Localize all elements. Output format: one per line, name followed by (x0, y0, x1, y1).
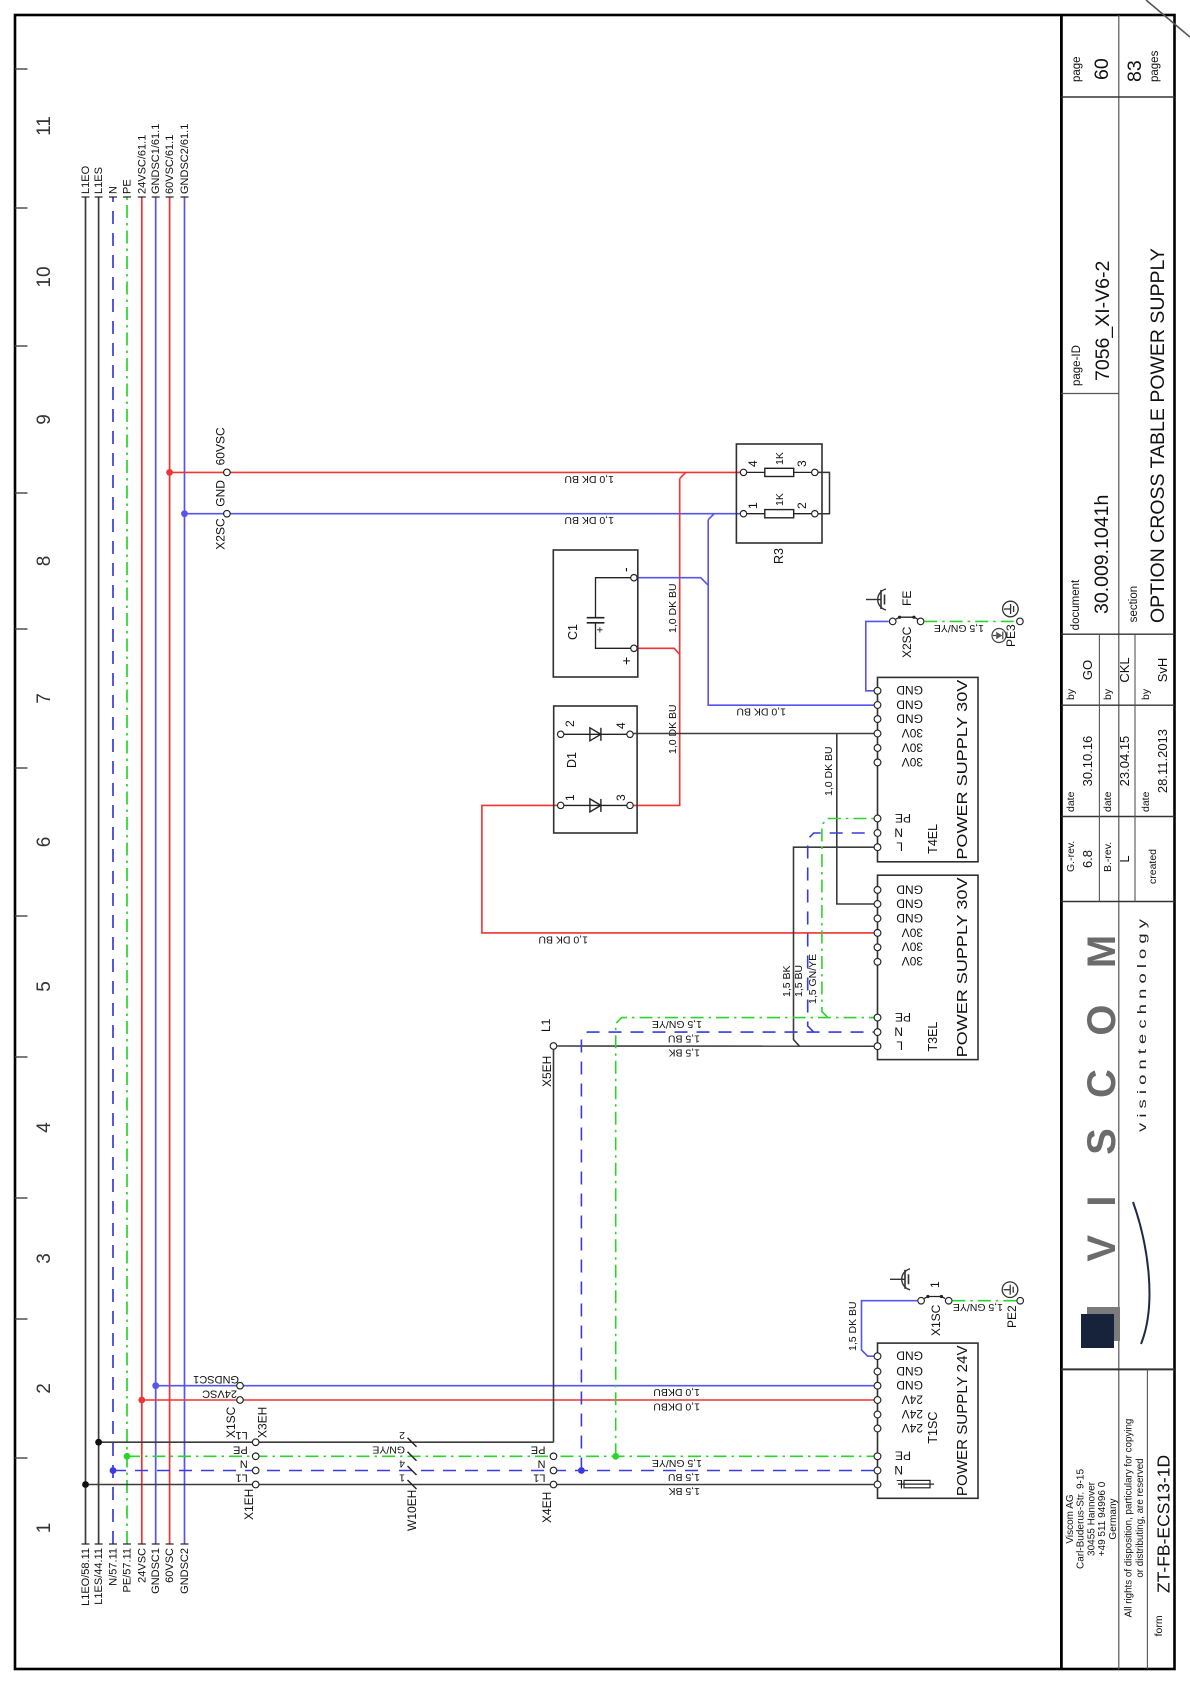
svg-text:3: 3 (614, 794, 628, 801)
svg-text:-: - (617, 567, 633, 572)
logo swoosh (1133, 1202, 1149, 1344)
wire branch to T4EL L (794, 847, 878, 1046)
pin 2 of R3 (812, 510, 818, 516)
svg-text:POWER SUPPLY 24V: POWER SUPPLY 24V (955, 1345, 971, 1496)
svg-text:6.8: 6.8 (1080, 850, 1095, 868)
terminal link X1SC (924, 1297, 945, 1299)
svg-text:PE2: PE2 (1005, 1305, 1019, 1328)
svg-text:1: 1 (563, 794, 577, 801)
svg-text:or distributing, are reserved: or distributing, are reserved (1135, 1458, 1146, 1577)
wire N drop from N bus through X1EH X4EH to T1SC N (113, 1470, 878, 1472)
terminal X2SC pin 1 circle (889, 618, 896, 625)
svg-text:GO: GO (1080, 660, 1095, 680)
wire GND net branch from C1 - (638, 578, 708, 586)
svg-text:30V: 30V (902, 726, 923, 740)
svg-text:30V: 30V (902, 940, 923, 954)
junction on L1EO bus (82, 1481, 89, 1488)
svg-text:4: 4 (614, 722, 628, 729)
terminal strip X4EH (550, 1481, 557, 1488)
svg-text:4: 4 (34, 1122, 55, 1133)
svg-text:GNDSC1/61.1: GNDSC1/61.1 (150, 124, 162, 194)
svg-text:L1ES/44.11: L1ES/44.11 (93, 1548, 105, 1605)
svg-text:date: date (1102, 791, 1114, 812)
svg-text:1,0 DK BU: 1,0 DK BU (564, 473, 614, 485)
svg-text:1: 1 (746, 502, 760, 509)
svg-text:N: N (894, 825, 903, 839)
svg-text:GND: GND (896, 712, 923, 726)
svg-text:23.04.15: 23.04.15 (1117, 736, 1132, 787)
svg-text:Viscom AG: Viscom AG (1065, 1494, 1076, 1543)
junction on GNDSC2 bus (181, 510, 188, 517)
svg-text:by: by (1140, 688, 1152, 700)
svg-text:1: 1 (399, 1472, 405, 1484)
terminal X3EH L1 (252, 1439, 259, 1446)
svg-text:PE/57.11: PE/57.11 (122, 1548, 134, 1592)
svg-text:PE: PE (895, 1449, 911, 1463)
svg-text:ZT-FB-ECS13-1D: ZT-FB-ECS13-1D (1154, 1455, 1174, 1593)
svg-text:by: by (1102, 688, 1114, 700)
svg-text:10: 10 (34, 266, 55, 287)
svg-text:v i s i o n t e c h n o l o g: v i s i o n t e c h n o l o g y (1137, 919, 1149, 1132)
svg-text:Carl-Buderus-Str. 9-15: Carl-Buderus-Str. 9-15 (1076, 1469, 1087, 1569)
wire bus rail GNDSC2 (184, 197, 186, 1544)
svg-text:7056_XI-V6-2: 7056_XI-V6-2 (1092, 261, 1114, 381)
svg-text:N/57.11: N/57.11 (108, 1548, 120, 1586)
svg-text:1,5 BK: 1,5 BK (668, 1047, 700, 1059)
svg-text:CKL: CKL (1117, 657, 1132, 682)
svg-text:83: 83 (1124, 60, 1146, 82)
svg-text:I: I (1080, 1195, 1124, 1206)
svg-text:1,5 BK: 1,5 BK (781, 965, 793, 997)
earth symbol in circle at PE3 (1003, 601, 1019, 617)
wire 60VSC drop to R3 pin 4 (170, 471, 744, 473)
svg-text:POWER SUPPLY 30V: POWER SUPPLY 30V (955, 679, 971, 859)
svg-text:PE: PE (895, 1010, 911, 1024)
wire bus rail GNDSC1 (155, 197, 157, 1544)
svg-text:pages: pages (1149, 50, 1161, 82)
svg-text:11: 11 (34, 116, 55, 136)
svg-text:X5EH: X5EH (540, 1056, 554, 1087)
svg-text:X4EH: X4EH (540, 1492, 554, 1523)
wire link T4EL 30V to T3EL GND (837, 734, 878, 905)
svg-text:8: 8 (34, 556, 55, 567)
svg-text:page-ID: page-ID (1071, 345, 1083, 386)
svg-text:1,0 DK BU: 1,0 DK BU (667, 704, 679, 754)
svg-text:1,5 GN/YE: 1,5 GN/YE (652, 1018, 702, 1030)
junction on 24VSC bus (138, 1397, 145, 1404)
svg-text:24V: 24V (902, 1421, 923, 1435)
wire 60V net horizontal run D1.3 to R3.4 (630, 472, 686, 805)
svg-text:1,0 DK BU: 1,0 DK BU (538, 933, 588, 945)
svg-text:L1EO: L1EO (80, 165, 92, 194)
power supply T4EL (878, 677, 979, 861)
svg-text:M: M (1080, 935, 1124, 968)
svg-text:X1SC: X1SC (929, 1304, 943, 1336)
wire L1 run X3EH to X5EH (553, 1050, 555, 1443)
svg-text:+: + (595, 627, 607, 633)
svg-text:L1EO/58.11: L1EO/58.11 (80, 1548, 92, 1606)
svg-text:24VSC: 24VSC (136, 1548, 148, 1583)
svg-text:GND: GND (214, 480, 228, 507)
svg-text:1,0 DK BU: 1,0 DK BU (823, 746, 835, 796)
svg-text:1,0 DKBU: 1,0 DKBU (653, 1401, 700, 1413)
svg-text:30V: 30V (902, 740, 923, 754)
svg-text:GND: GND (896, 896, 923, 910)
junction on GNDSC1 bus (152, 1382, 159, 1389)
wire bus rail 24VSC (141, 197, 143, 1544)
svg-text:L1: L1 (533, 1472, 545, 1484)
wire L1 drop from L1EO bus to X1EH to T1SC L (86, 1484, 256, 1486)
svg-text:4: 4 (746, 460, 760, 467)
terminal PE2 earth point (1017, 1297, 1024, 1304)
svg-text:PE: PE (531, 1443, 546, 1455)
svg-text:2: 2 (34, 1383, 55, 1394)
svg-text:1K: 1K (774, 452, 786, 465)
svg-text:GNDSC2/61.1: GNDSC2/61.1 (179, 124, 191, 194)
svg-text:4: 4 (399, 1458, 405, 1470)
svg-text:24VSC/61.1: 24VSC/61.1 (136, 135, 148, 194)
svg-text:+: + (618, 657, 634, 665)
svg-text:1,5 GN/YE: 1,5 GN/YE (934, 622, 984, 634)
svg-text:60VSC: 60VSC (214, 427, 228, 465)
wire X2SC to PE3 green (924, 620, 1016, 622)
svg-text:3: 3 (34, 1253, 55, 1264)
svg-text:form: form (1153, 1615, 1165, 1636)
wire bus rail N (112, 197, 114, 1544)
svg-text:L: L (896, 840, 903, 854)
svg-text:1,0 DK BU: 1,0 DK BU (564, 514, 614, 526)
pin 4 of D1 (627, 731, 633, 737)
earth symbol in circle at PE2 (1002, 1282, 1018, 1298)
terminal X2SC 60VSC (224, 469, 231, 476)
svg-text:GNDSC1: GNDSC1 (150, 1548, 162, 1594)
svg-text:1,5 BU: 1,5 BU (668, 1471, 700, 1483)
svg-text:1: 1 (34, 1523, 55, 1534)
svg-text:1,5 BU: 1,5 BU (668, 1033, 700, 1045)
svg-text:7: 7 (34, 693, 55, 704)
svg-text:GND: GND (896, 697, 923, 711)
svg-text:SvH: SvH (1155, 658, 1170, 683)
svg-text:R3: R3 (772, 548, 786, 564)
junction on 60VSC bus (166, 469, 173, 476)
functional earth symbol FE (866, 599, 881, 601)
terminal X1SC GNDSC1 circle (237, 1382, 244, 1389)
svg-text:PE: PE (233, 1443, 248, 1455)
terminal X1SC pin circle 2 (945, 1297, 952, 1304)
svg-text:N: N (894, 1463, 903, 1477)
svg-text:2: 2 (399, 1429, 405, 1441)
svg-text:30V: 30V (902, 954, 923, 968)
svg-text:+49 511 94996 0: +49 511 94996 0 (1097, 1481, 1108, 1556)
svg-text:60VSC/61.1: 60VSC/61.1 (164, 135, 176, 194)
svg-text:POWER SUPPLY 30V: POWER SUPPLY 30V (955, 877, 971, 1057)
svg-text:GND: GND (896, 882, 923, 896)
svg-text:1K: 1K (774, 493, 786, 506)
pin 2 of D1 (558, 731, 564, 737)
Viscom logo (1087, 1307, 1120, 1341)
svg-text:PE3: PE3 (1004, 624, 1018, 647)
wire PE drop from PE bus through X1EH X4EH to T1SC PE (127, 1455, 878, 1457)
svg-text:X2SC: X2SC (214, 518, 228, 550)
svg-text:X2SC: X2SC (900, 626, 914, 658)
svg-text:30455 Hannover: 30455 Hannover (1086, 1481, 1097, 1556)
svg-text:GND: GND (896, 911, 923, 925)
svg-text:T4EL: T4EL (926, 824, 940, 854)
svg-text:X1EH: X1EH (242, 1489, 256, 1520)
svg-text:L1: L1 (539, 1018, 553, 1032)
cable W10EH slash marks (408, 1480, 417, 1489)
svg-text:by: by (1065, 688, 1077, 700)
wire 24VSC drop to T1SC 24V (142, 1399, 878, 1401)
fuse symbol inside T1SC L input (904, 1480, 930, 1487)
svg-text:date: date (1140, 791, 1152, 812)
svg-text:O: O (1080, 1004, 1124, 1035)
junction on PE feeder (612, 1453, 619, 1460)
svg-text:N: N (240, 1458, 248, 1470)
terminal X2SC GND (224, 510, 231, 517)
svg-text:L1ES: L1ES (93, 167, 105, 194)
svg-text:FE: FE (900, 591, 914, 606)
pin 4 of R3 (740, 469, 746, 475)
revision cells (1098, 634, 1100, 901)
svg-text:GNDSC2: GNDSC2 (179, 1548, 191, 1594)
svg-text:L1: L1 (235, 1472, 247, 1484)
terminal link X2SC (896, 617, 918, 619)
wire N branch to T3EL N (581, 1032, 877, 1470)
svg-text:S: S (1080, 1128, 1124, 1155)
svg-text:3: 3 (795, 460, 809, 467)
capacitor C1 box (553, 550, 638, 677)
wire bus rail PE (126, 197, 128, 1544)
svg-text:GND: GND (896, 683, 923, 697)
wire PE branch to T4EL PE (822, 819, 878, 1018)
svg-text:Germany: Germany (1108, 1498, 1119, 1539)
svg-text:GN/YE: GN/YE (372, 1443, 405, 1455)
svg-text:All rights of disposition, par: All rights of disposition, particulary f… (1123, 1419, 1134, 1618)
junction on L1ES bus (95, 1439, 102, 1446)
svg-text:30.009.1041h: 30.009.1041h (1091, 495, 1113, 614)
diode symbol (564, 733, 627, 735)
svg-text:24VSC: 24VSC (202, 1388, 237, 1400)
jumper R3 pin2 to pin3 (818, 472, 830, 513)
svg-text:24V: 24V (902, 1407, 923, 1421)
wire L1 drop from L1ES bus to X3EH (99, 1441, 554, 1443)
svg-text:section: section (1128, 586, 1140, 622)
svg-text:1,0 DK BU: 1,0 DK BU (736, 706, 786, 718)
wire X5EH to T3EL L (557, 1045, 877, 1047)
svg-text:L: L (896, 1039, 903, 1053)
svg-text:page: page (1071, 56, 1083, 82)
svg-text:GND: GND (896, 1349, 923, 1363)
wire N branch to T4EL N (808, 833, 878, 1032)
svg-text:C: C (1080, 1069, 1124, 1098)
svg-text:1,5 GN/YE: 1,5 GN/YE (953, 1301, 1003, 1313)
capacitor symbol (587, 622, 605, 624)
pin 1 of R3 (740, 510, 746, 516)
svg-text:C1: C1 (566, 624, 580, 640)
svg-text:PE: PE (122, 179, 134, 194)
wire PE branch to T3EL PE (616, 1018, 878, 1457)
svg-text:GND: GND (896, 1364, 923, 1378)
svg-text:OPTION CROSS TABLE POWER SUPPL: OPTION CROSS TABLE POWER SUPPLY (1147, 248, 1169, 623)
rectifier D1 box (554, 706, 637, 833)
svg-text:1,5 GN/YE: 1,5 GN/YE (652, 1457, 702, 1469)
svg-text:1,5 BK: 1,5 BK (668, 1485, 700, 1497)
terminal X5EH (550, 1043, 557, 1050)
wire bus rail L1EO (85, 197, 87, 1544)
svg-text:GND: GND (896, 1378, 923, 1392)
svg-text:30V: 30V (902, 755, 923, 769)
wire X1SC to PE2 green (952, 1300, 1016, 1302)
svg-text:1: 1 (928, 1281, 942, 1288)
wire D1.4 to T4EL 30V (630, 733, 878, 735)
svg-text:B.-rev.: B.-rev. (1102, 842, 1114, 872)
svg-text:6: 6 (34, 837, 55, 848)
company address (1146, 1369, 1148, 1669)
resistor network R3 box (736, 444, 822, 543)
resistor R3a 1K (747, 513, 765, 515)
svg-text:L1: L1 (235, 1429, 247, 1441)
svg-text:T3EL: T3EL (926, 1022, 940, 1052)
svg-text:V: V (1080, 1235, 1124, 1262)
svg-text:1,5 BU: 1,5 BU (793, 965, 805, 997)
pin 1 of D1 (558, 802, 564, 808)
svg-text:1,0 DK BU: 1,0 DK BU (667, 583, 679, 633)
wire T4EL GND to X2SC terminal (866, 621, 889, 690)
junction on N feeder (578, 1467, 585, 1474)
functional earth symbol at X1SC (890, 1278, 905, 1280)
svg-text:2: 2 (563, 720, 577, 727)
terminal X2SC pin 2 circle (917, 618, 924, 625)
svg-text:1,0 DKBU: 1,0 DKBU (653, 1386, 700, 1398)
svg-text:60VSC: 60VSC (164, 1548, 176, 1583)
power supply T3EL (878, 875, 979, 1059)
svg-text:L: L (1117, 855, 1132, 862)
wire GNDSC2 drop to R3 pin 1 (185, 513, 744, 515)
pin 3 of R3 (812, 469, 818, 475)
svg-text:28.11.2013: 28.11.2013 (1155, 729, 1170, 793)
terminal strip X1EH (252, 1481, 259, 1488)
pin - of C1 (631, 574, 637, 580)
power supply T1SC (878, 1343, 979, 1498)
diode symbol (564, 804, 627, 806)
pin + of C1 (631, 645, 637, 651)
svg-text:1,5 GN/YE: 1,5 GN/YE (807, 954, 819, 1004)
svg-text:5: 5 (34, 981, 55, 992)
wire GNDSC1 drop to T1SC GND (156, 1385, 878, 1387)
junction on N bus (110, 1467, 117, 1474)
svg-text:N: N (108, 186, 120, 194)
svg-text:D1: D1 (565, 752, 579, 768)
wire bus rail 60VSC (169, 197, 171, 1544)
svg-text:1,5 DK BU: 1,5 DK BU (847, 1301, 859, 1351)
svg-text:G.-rev.: G.-rev. (1065, 841, 1077, 872)
svg-text:X3EH: X3EH (256, 1407, 270, 1438)
svg-text:created: created (1147, 849, 1159, 884)
svg-text:GNDSC1: GNDSC1 (193, 1373, 239, 1385)
pin 3 of D1 (627, 802, 633, 808)
svg-text:24V: 24V (902, 1392, 923, 1406)
terminal PE3 earth point (1017, 618, 1024, 625)
svg-text:W10EH: W10EH (405, 1490, 419, 1531)
svg-text:2: 2 (795, 502, 809, 509)
svg-text:N: N (894, 1025, 903, 1039)
wire bus rail L1ES (98, 197, 100, 1544)
PE connection symbol at PE3 (992, 629, 1006, 643)
wire T1SC GND to X1SC terminal (862, 1301, 918, 1357)
svg-text:30.10.16: 30.10.16 (1080, 736, 1095, 787)
junction on PE bus (124, 1453, 131, 1460)
svg-text:date: date (1065, 791, 1077, 812)
svg-text:document: document (1070, 579, 1082, 630)
svg-text:PE: PE (895, 811, 911, 825)
title block (1060, 15, 1063, 1669)
svg-text:30V: 30V (902, 925, 923, 939)
terminal X1SC 24VSC circle (237, 1397, 244, 1404)
wire GND net horizontal run T4EL.GND to R3.1 (708, 514, 877, 706)
svg-text:N: N (538, 1458, 546, 1470)
svg-text:9: 9 (34, 414, 55, 425)
svg-text:60: 60 (1091, 58, 1113, 80)
resistor R3b 1K (747, 471, 765, 473)
terminal X1SC pin circle 1 (918, 1297, 925, 1304)
wire 60VDC link D1.1 to T3EL 30V (482, 805, 878, 933)
wire 60V net branch to C1 + (638, 648, 680, 654)
svg-text:T1SC: T1SC (926, 1412, 940, 1444)
